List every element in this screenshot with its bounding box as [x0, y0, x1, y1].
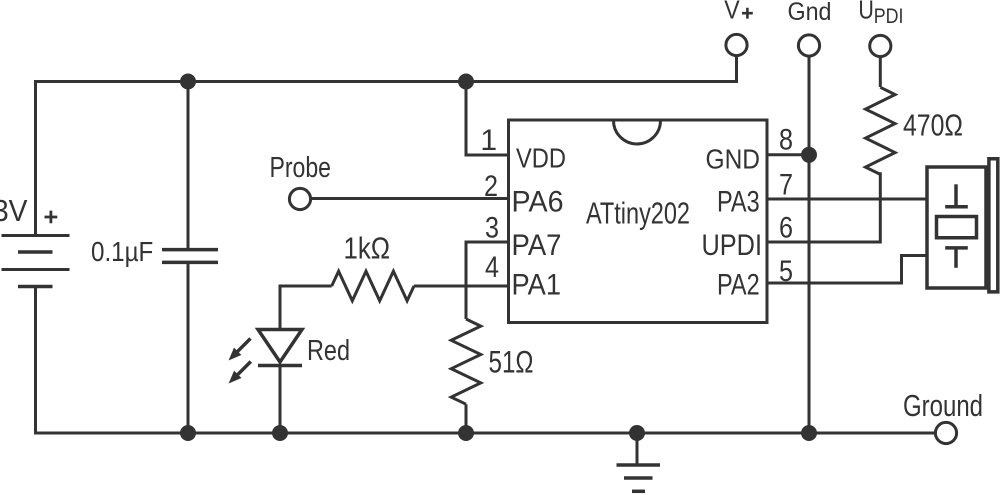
svg-text:470Ω: 470Ω — [903, 108, 963, 143]
LED arrow 2 — [238, 362, 251, 375]
svg-text:0.1µF: 0.1µF — [91, 236, 153, 267]
piezo crystal top lead — [954, 184, 958, 207]
svg-text:Gnd: Gnd — [788, 0, 832, 26]
svg-text:4: 4 — [485, 251, 499, 284]
svg-text:8: 8 — [779, 124, 793, 157]
wire pin8 net — [767, 153, 809, 156]
svg-text:PA7: PA7 — [512, 229, 562, 262]
svg-text:1kΩ: 1kΩ — [344, 231, 391, 266]
junction bottom r51 — [458, 425, 474, 441]
terminal Ground — [935, 422, 956, 443]
wire V+ lead — [735, 57, 738, 84]
battery B1 — [2, 236, 70, 287]
IC notch — [614, 121, 661, 145]
wire left rail lower segment — [34, 287, 37, 433]
junction bottom led — [272, 425, 288, 441]
svg-text:PDI: PDI — [874, 5, 904, 28]
piezo crystal top plate — [945, 205, 968, 209]
svg-text:GND: GND — [706, 144, 761, 175]
junction bottom gndline — [801, 425, 817, 441]
wire R1 to LED — [280, 286, 332, 330]
piezo crystal bottom plate — [945, 246, 968, 250]
junction top cap — [180, 74, 196, 90]
piezo X1 disc — [989, 159, 998, 292]
svg-text:PA3: PA3 — [717, 186, 760, 219]
IC U1 ATtiny202 — [509, 120, 768, 323]
resistor R1 1k — [332, 271, 414, 301]
wire pin5 net PA2 jog — [767, 256, 927, 284]
svg-text:51Ω: 51Ω — [489, 344, 534, 380]
terminal Gnd — [798, 35, 819, 56]
svg-text:6: 6 — [779, 212, 793, 245]
svg-text:Ground: Ground — [903, 388, 983, 423]
piezo crystal bottom lead — [954, 248, 958, 268]
wire left rail upper segment — [34, 80, 37, 235]
wire top rail — [34, 80, 737, 83]
wire LED to bottom rail — [279, 367, 282, 433]
svg-text:Red: Red — [307, 335, 350, 367]
svg-text:UPDI: UPDI — [702, 229, 763, 262]
junction bottom cap — [180, 425, 196, 441]
resistor R3 470 — [866, 87, 896, 174]
junction Gnd pin8 — [801, 147, 817, 163]
wire R2 to bottom rail — [465, 404, 468, 433]
wire Gnd vertical — [808, 57, 811, 433]
wire pin2 probe net — [312, 197, 511, 200]
svg-text:ATtiny202: ATtiny202 — [586, 196, 690, 231]
wire capacitor branch upper — [187, 82, 190, 249]
piezo X1 body — [927, 167, 986, 288]
junction bottom gndsym — [629, 425, 645, 441]
svg-text:V: V — [724, 0, 740, 25]
piezo crystal rect — [937, 217, 977, 238]
svg-text:7: 7 — [779, 169, 793, 202]
svg-text:3: 3 — [485, 212, 499, 245]
wire pin1 net — [466, 82, 510, 156]
svg-text:PA6: PA6 — [512, 186, 564, 219]
capacitor C1 — [162, 250, 218, 263]
ground symbol — [617, 433, 661, 491]
terminal U_PDI — [870, 35, 891, 56]
svg-text:PA1: PA1 — [512, 269, 562, 302]
svg-text:VDD: VDD — [516, 143, 566, 174]
svg-text:U: U — [858, 0, 874, 25]
wire pin6 net UPDI — [767, 241, 880, 244]
LED D1 triangle — [258, 330, 302, 363]
wire U_PDI lead — [879, 58, 882, 88]
svg-text:3V: 3V — [0, 193, 28, 228]
LED D1 cathode bar — [258, 364, 302, 368]
svg-text:1: 1 — [480, 124, 497, 157]
wire pin3 net — [466, 242, 510, 319]
LED arrow 1 — [238, 339, 251, 352]
wire bottom rail — [34, 432, 935, 435]
battery plus sign — [45, 211, 58, 224]
svg-text:PA2: PA2 — [717, 269, 760, 302]
wire pin4 segment from resistor — [414, 285, 510, 288]
wire capacitor branch lower — [187, 264, 190, 433]
terminal V+ — [726, 34, 747, 55]
junction top pin1 — [458, 74, 474, 90]
wire R3 to UPDI pin — [879, 172, 882, 243]
resistor R2 51 — [451, 319, 481, 404]
wire pin7 net PA3 to piezo — [767, 198, 927, 201]
svg-text:Probe: Probe — [270, 152, 332, 184]
terminal Probe — [289, 188, 310, 209]
